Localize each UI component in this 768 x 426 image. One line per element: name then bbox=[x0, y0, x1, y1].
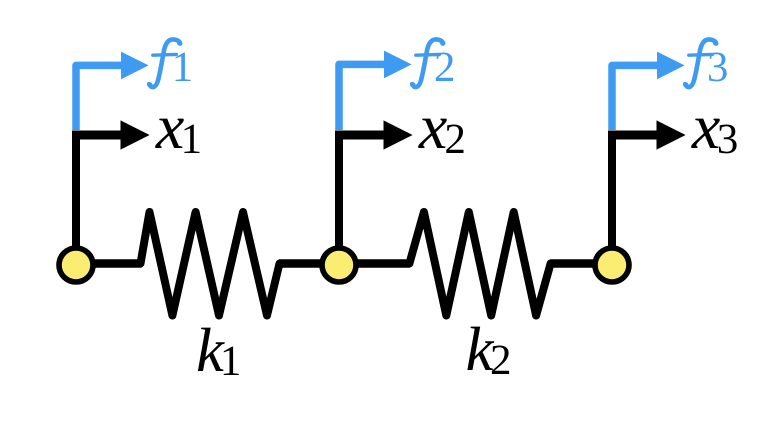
node 3 bbox=[595, 248, 629, 282]
wire: lead from node 2 to spring k2 bbox=[353, 259, 410, 267]
wire: lead from spring k1 to node 2 bbox=[279, 259, 325, 267]
spring k2 bbox=[409, 212, 550, 316]
arrowhead f3 bbox=[657, 52, 685, 80]
wire: lead from spring k2 to node 3 bbox=[550, 259, 598, 267]
label k2 bbox=[467, 327, 509, 374]
wire: blue L-link and shaft of arrow f2 bbox=[339, 64, 386, 130]
label x3 bbox=[691, 119, 737, 154]
node 2 bbox=[322, 248, 356, 282]
arrowhead x3 bbox=[657, 120, 686, 149]
label f3 bbox=[683, 39, 726, 87]
wire: lead from node 1 to spring k1 bbox=[90, 259, 142, 267]
wire: vertical link above node 3 bbox=[608, 131, 616, 251]
label f1 bbox=[147, 39, 190, 87]
wire: horizontal shaft of arrow x1 bbox=[72, 131, 124, 140]
label x1 bbox=[155, 119, 199, 153]
wire: vertical link above node 2 bbox=[335, 131, 343, 251]
arrowhead f2 bbox=[384, 51, 412, 79]
arrowhead x2 bbox=[384, 120, 413, 149]
wire: vertical link above node 1 bbox=[72, 131, 80, 251]
label f2 bbox=[410, 39, 453, 87]
wire: horizontal shaft of arrow x3 bbox=[608, 131, 660, 140]
label k1 bbox=[198, 328, 239, 375]
arrowhead x1 bbox=[121, 120, 150, 149]
arrowhead f1 bbox=[121, 52, 149, 80]
node 1 bbox=[59, 248, 93, 282]
label x2 bbox=[418, 119, 463, 153]
spring k1 bbox=[141, 212, 280, 316]
wire: blue L-link and shaft of arrow f1 bbox=[76, 65, 123, 130]
wire: horizontal shaft of arrow x2 bbox=[335, 131, 387, 140]
wire: blue L-link and shaft of arrow f3 bbox=[612, 65, 659, 130]
